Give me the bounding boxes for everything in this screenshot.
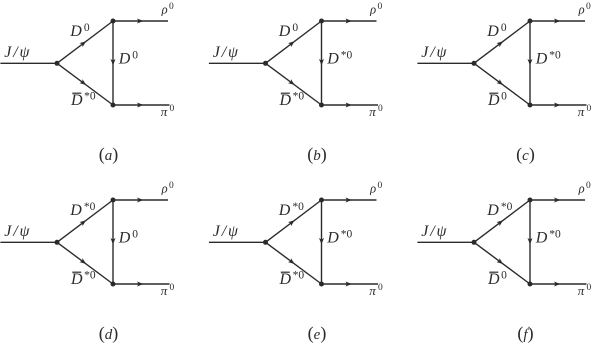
- svg-text:D0: D0: [278, 22, 299, 40]
- svg-text:ρ0: ρ0: [161, 2, 174, 17]
- arrow on lower diagonal (e): [288, 258, 296, 266]
- vertex dot: J/psi coupling (b): [263, 61, 268, 66]
- wire: Dbar internal line lower diagonal (c): [474, 63, 530, 105]
- overbar of Dbar label (f): [489, 271, 498, 273]
- wire: rho0 outgoing line (c): [530, 20, 585, 22]
- svg-text:(f): (f): [517, 323, 533, 344]
- vertex dot: J/psi coupling (c): [472, 61, 477, 66]
- wire: Dbar internal line lower diagonal (b): [266, 63, 322, 105]
- arrow on upper diagonal (a): [80, 39, 88, 47]
- arrow on vertical internal line (f): [528, 238, 533, 244]
- svg-text:D0: D0: [69, 22, 90, 40]
- wire: Dbar internal line lower diagonal (d): [57, 242, 113, 284]
- svg-text:π0: π0: [578, 283, 592, 298]
- wire: D internal line vertical (e): [321, 200, 323, 284]
- wire: Dbar internal line lower diagonal (e): [266, 242, 322, 284]
- svg-text:(d): (d): [99, 323, 119, 344]
- svg-text:ρ0: ρ0: [161, 181, 174, 196]
- vertex dot: J/psi coupling (a): [55, 61, 60, 66]
- wire: D internal line upper diagonal (c): [474, 21, 530, 63]
- svg-text:π0: π0: [369, 283, 383, 298]
- arrow on upper diagonal (f): [497, 218, 505, 226]
- svg-text:(c): (c): [516, 144, 535, 165]
- vertex dot: rho0 coupling (b): [319, 19, 324, 24]
- wire: D internal line vertical (a): [112, 21, 114, 105]
- arrow on lower diagonal (b): [288, 79, 296, 87]
- arrow on vertical internal line (c): [528, 59, 533, 65]
- vertex dot: pi0 coupling (f): [528, 282, 533, 287]
- arrow on pi0 line (c): [554, 103, 560, 108]
- arrow on lower diagonal (f): [496, 258, 504, 266]
- arrow on rho0 line (d): [137, 198, 143, 203]
- wire: D internal line upper diagonal (f): [474, 200, 530, 242]
- overbar of Dbar label (d): [72, 271, 81, 273]
- wire: Dbar internal line lower diagonal (a): [57, 63, 113, 105]
- arrow on vertical internal line (d): [111, 238, 116, 244]
- arrow on rho0 line (e): [346, 198, 352, 203]
- svg-text:(e): (e): [308, 323, 327, 344]
- wire: D internal line vertical (b): [321, 21, 323, 105]
- wire: pi0 outgoing line (f): [530, 283, 587, 285]
- overbar of Dbar label (e): [281, 271, 290, 273]
- svg-text:D*0: D*0: [535, 229, 561, 247]
- wire: D internal line vertical (f): [529, 200, 531, 284]
- vertex dot: rho0 coupling (d): [111, 198, 116, 203]
- vertex dot: pi0 coupling (a): [111, 103, 116, 108]
- svg-text:π0: π0: [161, 283, 175, 298]
- wire: J/psi incoming line (e): [209, 241, 266, 243]
- arrow on rho0 line (a): [137, 19, 143, 24]
- svg-text:π0: π0: [369, 104, 383, 119]
- arrow on lower diagonal (a): [79, 79, 87, 87]
- wire: D internal line vertical (c): [529, 21, 531, 105]
- vertex dot: rho0 coupling (c): [528, 19, 533, 24]
- arrow on pi0 line (b): [346, 103, 352, 108]
- wire: J/psi incoming line (b): [209, 62, 266, 64]
- arrow on upper diagonal (d): [80, 218, 88, 226]
- wire: J/psi incoming line (f): [417, 241, 474, 243]
- arrow on lower diagonal (c): [496, 79, 504, 87]
- wire: Dbar internal line lower diagonal (f): [474, 242, 530, 284]
- arrow on pi0 line (a): [137, 103, 143, 108]
- overbar of Dbar label (c): [489, 92, 498, 94]
- vertex dot: pi0 coupling (e): [319, 282, 324, 287]
- svg-text:ρ0: ρ0: [369, 2, 382, 17]
- svg-text:ρ0: ρ0: [369, 181, 382, 196]
- vertex dot: pi0 coupling (d): [111, 282, 116, 287]
- vertex dot: rho0 coupling (a): [111, 19, 116, 24]
- arrow on vertical internal line (a): [111, 59, 116, 65]
- wire: J/psi incoming line (d): [0, 241, 57, 243]
- wire: D internal line upper diagonal (e): [266, 200, 322, 242]
- arrow on pi0 line (e): [346, 282, 352, 287]
- wire: D internal line vertical (d): [112, 200, 114, 284]
- svg-text:J/ψ: J/ψ: [4, 223, 31, 240]
- wire: D internal line upper diagonal (b): [266, 21, 322, 63]
- svg-text:J/ψ: J/ψ: [213, 44, 240, 61]
- wire: pi0 outgoing line (c): [530, 104, 587, 106]
- wire: J/psi incoming line (a): [0, 62, 57, 64]
- wire: D internal line upper diagonal (d): [57, 200, 113, 242]
- vertex dot: J/psi coupling (e): [263, 240, 268, 245]
- arrow on upper diagonal (b): [288, 39, 296, 47]
- wire: pi0 outgoing line (e): [322, 283, 379, 285]
- arrow on vertical internal line (e): [319, 238, 324, 244]
- arrow on upper diagonal (e): [288, 218, 296, 226]
- svg-text:D0: D0: [118, 229, 139, 247]
- arrow on rho0 line (c): [554, 19, 560, 24]
- svg-text:J/ψ: J/ψ: [421, 44, 448, 61]
- arrow on upper diagonal (c): [497, 39, 505, 47]
- arrow on rho0 line (b): [346, 19, 352, 24]
- svg-text:J/ψ: J/ψ: [4, 44, 31, 61]
- wire: rho0 outgoing line (d): [113, 199, 168, 201]
- wire: D internal line upper diagonal (a): [57, 21, 113, 63]
- vertex dot: rho0 coupling (e): [319, 198, 324, 203]
- arrow on vertical internal line (b): [319, 59, 324, 65]
- svg-text:D0: D0: [486, 22, 507, 40]
- svg-text:J/ψ: J/ψ: [213, 223, 240, 240]
- svg-text:ρ0: ρ0: [578, 2, 591, 17]
- arrow on pi0 line (d): [137, 282, 143, 287]
- svg-text:D*0: D*0: [326, 50, 352, 68]
- svg-text:π0: π0: [578, 104, 592, 119]
- vertex dot: rho0 coupling (f): [528, 198, 533, 203]
- vertex dot: J/psi coupling (d): [55, 240, 60, 245]
- overbar of Dbar label (b): [281, 92, 290, 94]
- wire: rho0 outgoing line (b): [322, 20, 377, 22]
- arrow on lower diagonal (d): [79, 258, 87, 266]
- svg-text:D*0: D*0: [535, 50, 561, 68]
- wire: pi0 outgoing line (a): [113, 104, 170, 106]
- svg-text:D*0: D*0: [326, 229, 352, 247]
- wire: pi0 outgoing line (b): [322, 104, 379, 106]
- svg-text:ρ0: ρ0: [578, 181, 591, 196]
- arrow on rho0 line (f): [554, 198, 560, 203]
- vertex dot: pi0 coupling (c): [528, 103, 533, 108]
- wire: J/psi incoming line (c): [417, 62, 474, 64]
- svg-text:(a): (a): [99, 144, 119, 165]
- wire: rho0 outgoing line (f): [530, 199, 585, 201]
- wire: rho0 outgoing line (a): [113, 20, 168, 22]
- overbar of Dbar label (a): [72, 92, 81, 94]
- vertex dot: J/psi coupling (f): [472, 240, 477, 245]
- arrow on pi0 line (f): [554, 282, 560, 287]
- vertex dot: pi0 coupling (b): [319, 103, 324, 108]
- svg-text:π0: π0: [161, 104, 175, 119]
- wire: pi0 outgoing line (d): [113, 283, 170, 285]
- svg-text:D0: D0: [118, 50, 139, 68]
- svg-text:J/ψ: J/ψ: [421, 223, 448, 240]
- wire: rho0 outgoing line (e): [322, 199, 377, 201]
- svg-text:(b): (b): [307, 144, 327, 165]
